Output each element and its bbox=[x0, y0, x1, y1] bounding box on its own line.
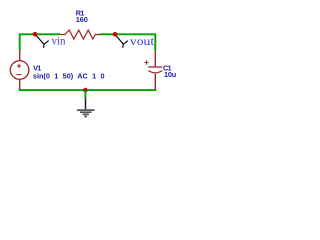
V1 top pin bbox=[19, 50, 21, 60]
svg-text:vin: vin bbox=[52, 36, 66, 48]
V1 minus sign bbox=[16, 74, 21, 76]
V1 plus sign bbox=[17, 64, 21, 68]
wire top from R1 to C1 bbox=[100, 34, 156, 50]
C1 top pin bbox=[154, 50, 156, 66]
voltage source V1 bbox=[10, 50, 29, 89]
ground stub wire dark bbox=[85, 98, 87, 110]
C1 bottom plate arc bbox=[148, 71, 162, 73]
C1 polarity plus bbox=[144, 60, 148, 64]
V1 circle bbox=[10, 61, 29, 80]
wire top from V1 to R1 bbox=[20, 34, 61, 50]
ground symbol bbox=[77, 110, 95, 116]
C1 top plate bbox=[148, 66, 162, 68]
junction dot at ground bbox=[83, 88, 88, 93]
probe at vin bbox=[35, 34, 49, 48]
junction dot at vin bbox=[33, 32, 38, 37]
svg-text:vout: vout bbox=[130, 36, 155, 48]
svg-text:160: 160 bbox=[76, 15, 88, 24]
probe at vout bbox=[115, 34, 128, 48]
ground stub wire green bbox=[84, 90, 86, 98]
junction dot at vout bbox=[113, 32, 118, 37]
V1 bottom pin bbox=[19, 79, 21, 89]
resistor R1 bbox=[60, 30, 100, 39]
C1 bottom pin bbox=[154, 74, 156, 89]
svg-text:10u: 10u bbox=[164, 70, 176, 79]
wire bottom bbox=[20, 89, 156, 91]
svg-text:sin(0 1 50) AC 1 0: sin(0 1 50) AC 1 0 bbox=[33, 72, 105, 81]
capacitor C1 bbox=[144, 50, 162, 89]
